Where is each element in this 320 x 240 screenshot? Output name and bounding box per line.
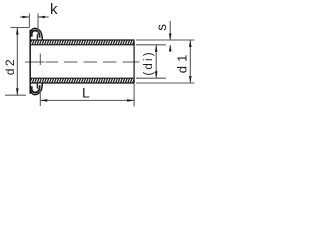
rivet end face (left) (29, 30, 31, 94)
svg-text:(di): (di) (143, 50, 155, 75)
dimension k: extension lines (29, 14, 38, 35)
dimension d2: dimension line (16, 28, 18, 96)
svg-text:k: k (50, 1, 58, 18)
centerline (rivet axis) (25, 61, 140, 63)
right side extension lines (136, 40, 194, 83)
svg-text:d1: d1 (175, 50, 190, 73)
svg-text:L: L (82, 84, 90, 100)
svg-text:s: s (154, 24, 169, 31)
dimension d1: dimension line (189, 40, 191, 83)
svg-text:d2: d2 (3, 57, 17, 75)
dimension k: dimension line with outside arrows (20, 16, 49, 18)
tube wall outlines (30, 40, 134, 83)
dimension L: dimension line (40, 99, 134, 101)
dimension s: leader line and outside arrows (169, 21, 171, 40)
head flange upper curl (30, 28, 42, 40)
tube top wall hatching (27, 39, 137, 46)
tube bottom wall hatching (27, 77, 137, 84)
rivet tube right end edge (133, 40, 135, 84)
dimension (di): dimension line (155, 45, 157, 78)
dimension L: extension line left (40, 54, 134, 107)
head flange lower curl (30, 83, 42, 95)
dimension d2: extension lines (5, 28, 29, 96)
